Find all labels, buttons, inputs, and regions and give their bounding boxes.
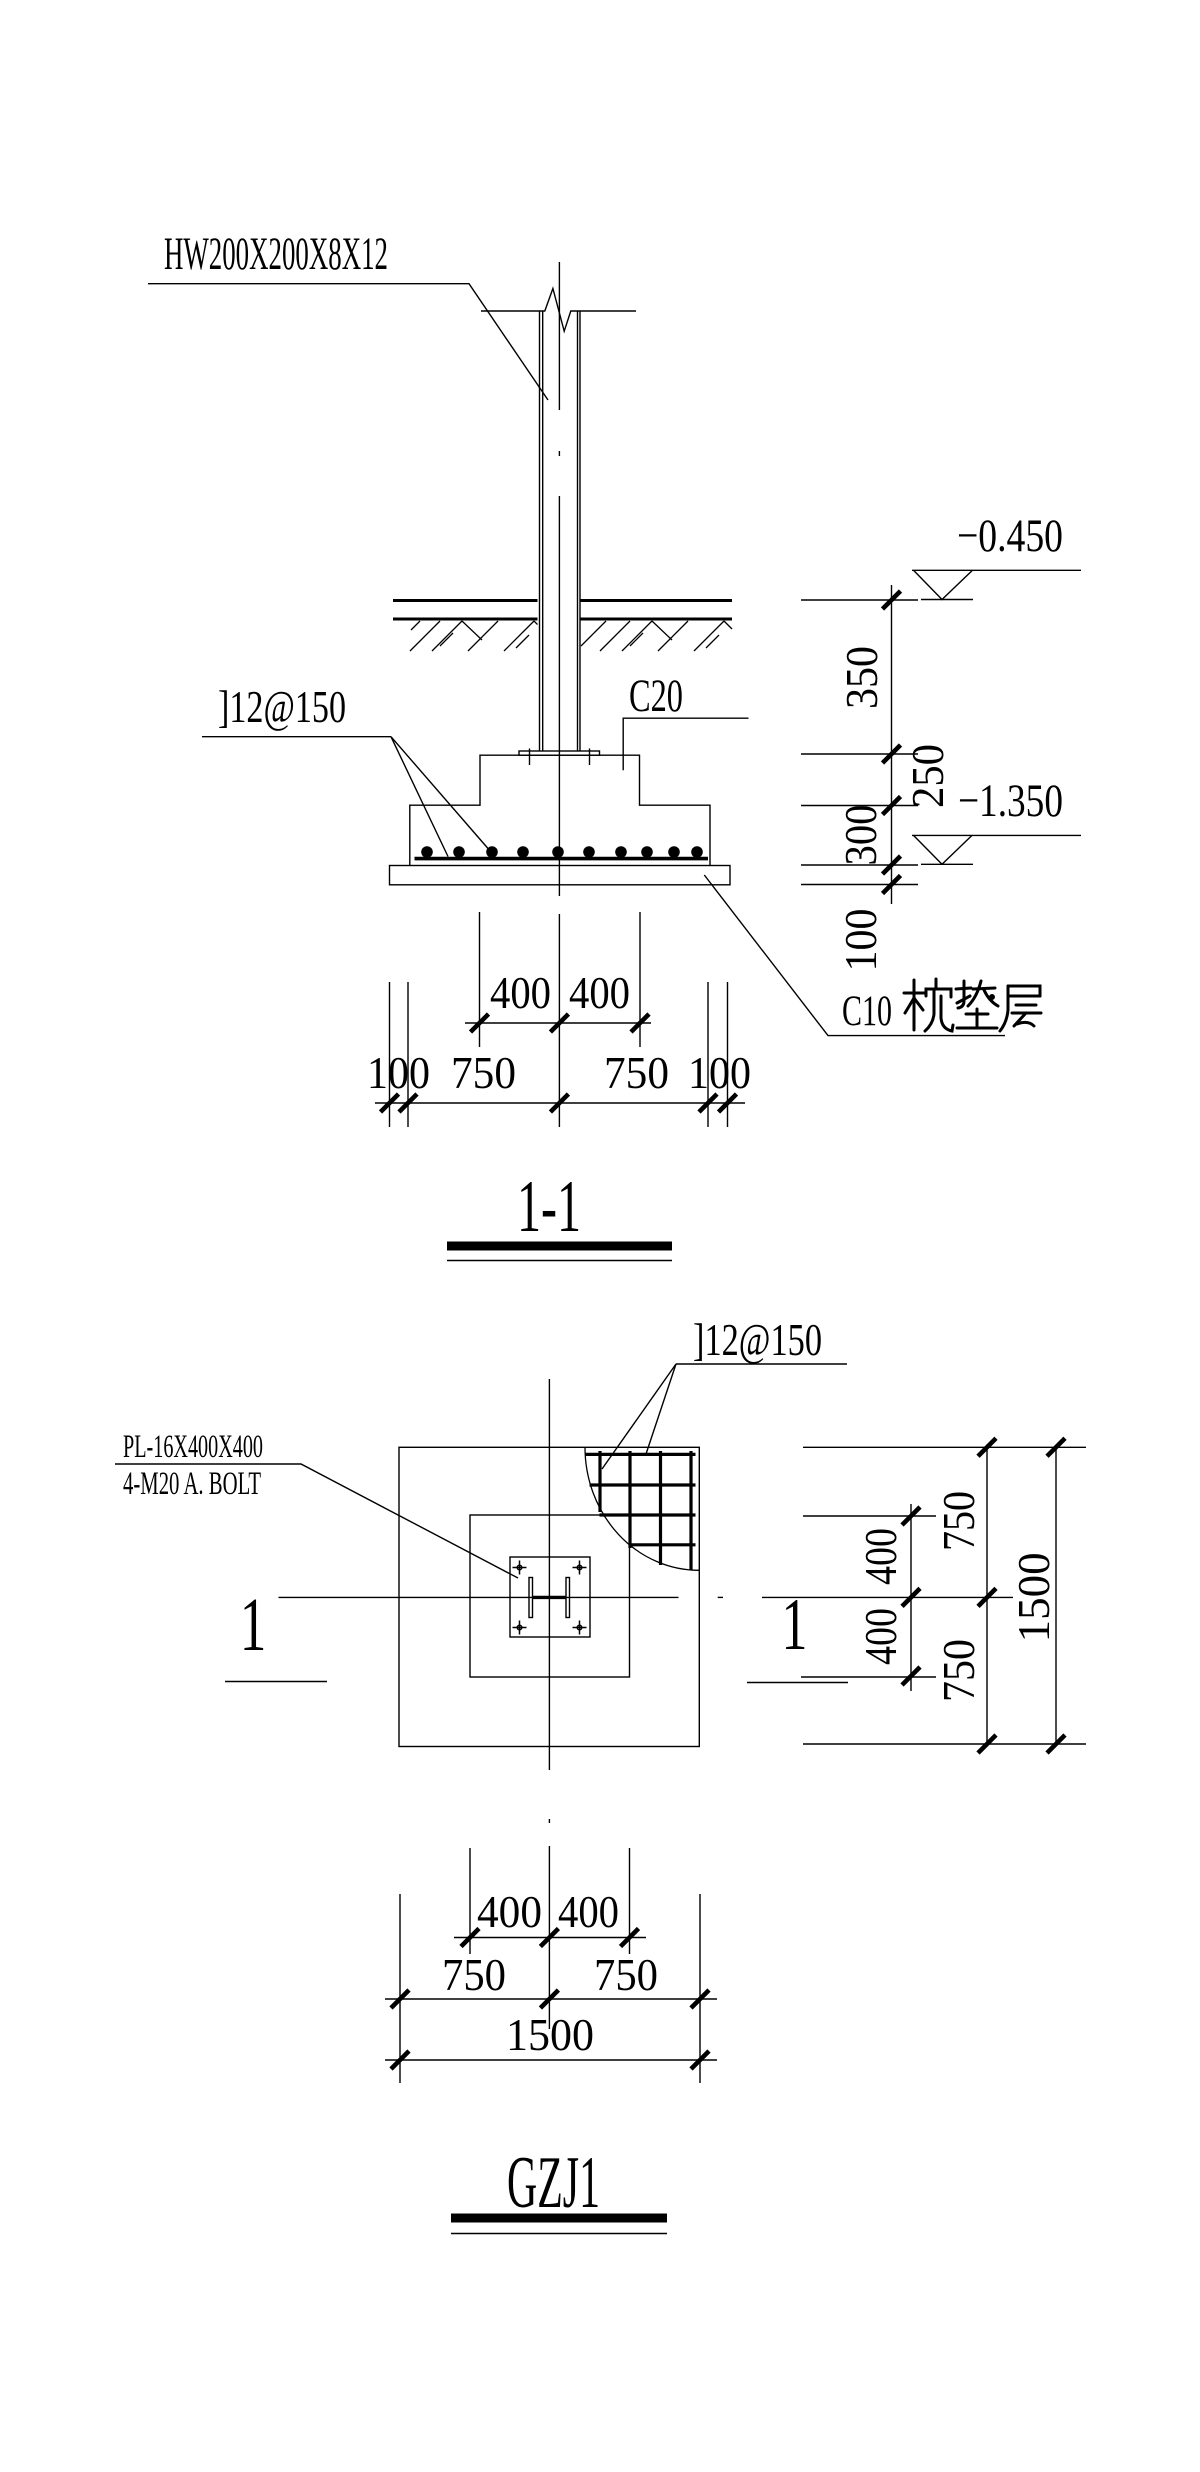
plan dim line 750/750	[385, 1998, 717, 2000]
svg-text:1500: 1500	[506, 2009, 594, 2060]
svg-text:GZJ1: GZJ1	[507, 2142, 600, 2224]
base plate (plan)	[510, 1557, 590, 1637]
svg-text:350: 350	[836, 646, 887, 709]
dim text 400 lower (plan right)	[855, 1608, 906, 1665]
column top break line	[481, 289, 636, 332]
right dim ticks	[883, 591, 901, 609]
anchor bolts (section)	[529, 749, 531, 766]
bottom rebar line	[415, 857, 709, 861]
steel column HW section	[540, 311, 581, 751]
svg-text:4-M20 A. BOLT: 4-M20 A. BOLT	[123, 1466, 261, 1502]
dim text 100 left	[367, 1047, 430, 1098]
label ]12@150 (plan)	[693, 1314, 822, 1365]
dim text 750 left (plan bottom)	[442, 1949, 506, 2000]
svg-text:1: 1	[782, 1583, 808, 1665]
base plate (section)	[519, 751, 600, 755]
svg-text:250: 250	[902, 744, 953, 808]
plan dim line 400/400	[454, 1937, 646, 1939]
anchor bolt top-right	[573, 1561, 587, 1575]
dim text 300	[835, 805, 886, 866]
mesh break arc	[585, 1447, 699, 1570]
title GZJ1	[451, 2142, 667, 2234]
right dim extension lines	[801, 599, 918, 601]
svg-text:1: 1	[240, 1584, 267, 1667]
section mark 1 right	[747, 1583, 848, 1683]
hanzi ceng (cushion char 3)	[1000, 986, 1041, 1031]
svg-text:750: 750	[933, 1491, 984, 1551]
anchor bolt top-left	[513, 1561, 527, 1575]
label ]12@150 (section)	[218, 681, 346, 732]
leader ]12@150 (section)	[202, 736, 391, 738]
plan right extension lines	[803, 1446, 1086, 1448]
dim line 400/400 (section)	[465, 1022, 651, 1024]
C10 cushion slab	[390, 866, 731, 885]
leader for HW label	[148, 284, 548, 400]
elevation marker -0.450	[912, 510, 1081, 600]
rebar mesh vertical bars	[600, 1451, 691, 1570]
dim text 400 left	[490, 967, 551, 1018]
plan vertical center line	[548, 1379, 550, 2029]
dim text 1500 (plan bottom)	[506, 2009, 594, 2060]
dim text 750 left	[451, 1047, 516, 1098]
leader C10	[704, 875, 1005, 1036]
outer footing square	[399, 1447, 699, 1746]
svg-text:−1.350: −1.350	[958, 775, 1063, 827]
dim text 400 left (plan bottom)	[477, 1886, 542, 1937]
middle pedestal square	[470, 1515, 630, 1677]
hanzi dian (cushion char 2)	[956, 981, 998, 1028]
svg-text:400: 400	[569, 967, 630, 1018]
dim text 1500 (plan right)	[1008, 1552, 1059, 1642]
dim text 750 lower (plan right)	[933, 1639, 984, 1702]
svg-text:]12@150: ]12@150	[218, 681, 346, 732]
svg-text:100: 100	[835, 909, 886, 972]
anchor bolt bottom-left	[513, 1621, 527, 1635]
leader PL label	[115, 1464, 518, 1578]
rebar mesh horizontal bars	[585, 1454, 695, 1544]
svg-text:100: 100	[688, 1047, 751, 1098]
svg-text:400: 400	[855, 1608, 906, 1665]
svg-text:750: 750	[594, 1949, 658, 2000]
right elevation dim line	[891, 585, 893, 904]
title 1-1	[447, 1166, 672, 1261]
dim text 400 right	[569, 967, 630, 1018]
dim line 100/750/750/100	[375, 1102, 745, 1104]
foundation stepped outline	[410, 755, 710, 865]
label HW200X200X8X12	[164, 228, 388, 280]
plan bottom extension lines	[469, 1848, 471, 1954]
svg-text:C10: C10	[842, 988, 892, 1035]
H column section symbol	[529, 1578, 570, 1618]
elevation marker -1.350	[912, 775, 1081, 864]
svg-text:300: 300	[835, 805, 886, 866]
dim text 750 right	[604, 1047, 669, 1098]
svg-text:750: 750	[604, 1047, 669, 1098]
leader C20	[623, 718, 748, 770]
svg-text:400: 400	[855, 1528, 906, 1585]
column center line	[558, 262, 560, 1127]
svg-text:−0.450: −0.450	[957, 510, 1063, 562]
dim text 100 right	[688, 1047, 751, 1098]
plan right dim line 1500	[1055, 1447, 1057, 1744]
label 4-M20 A. BOLT	[123, 1466, 261, 1502]
dim text 750 right (plan bottom)	[594, 1949, 658, 2000]
svg-text:HW200X200X8X12: HW200X200X8X12	[164, 228, 388, 280]
svg-text:400: 400	[490, 967, 551, 1018]
svg-text:750: 750	[933, 1639, 984, 1702]
svg-text:750: 750	[451, 1047, 516, 1098]
dim text 350	[836, 646, 887, 709]
label C20	[629, 670, 683, 722]
dim text 100	[835, 909, 886, 972]
dim text 400 right (plan bottom)	[558, 1886, 619, 1937]
svg-text:400: 400	[558, 1886, 619, 1937]
svg-text:750: 750	[442, 1949, 506, 2000]
svg-text:C20: C20	[629, 670, 683, 722]
svg-text:400: 400	[477, 1886, 542, 1937]
ground level lines	[393, 601, 732, 620]
plan right dim line 400/400	[910, 1504, 912, 1691]
soil hatch left	[410, 621, 538, 651]
label C10 cushion	[842, 988, 892, 1035]
section mark 1 left	[225, 1584, 327, 1682]
rebar dots	[421, 846, 703, 858]
anchor bolt bottom-right	[573, 1621, 587, 1635]
svg-text:PL-16X400X400: PL-16X400X400	[123, 1429, 263, 1465]
dim text 250	[902, 744, 953, 808]
bottom extension lines (section)	[479, 912, 481, 1047]
plan horizontal center line	[279, 1596, 1014, 1598]
plan dim line 1500	[385, 2059, 717, 2061]
plan right dim line 750/750	[986, 1447, 988, 1744]
svg-text:100: 100	[367, 1047, 430, 1098]
svg-text:1-1: 1-1	[517, 1166, 581, 1248]
svg-text:]12@150: ]12@150	[693, 1314, 822, 1365]
svg-text:1500: 1500	[1008, 1552, 1059, 1642]
dim text 400 upper (plan right)	[855, 1528, 906, 1585]
soil hatch right	[581, 621, 732, 651]
hanzi zhen (cushion char 1)	[904, 979, 953, 1031]
leader ]12@150 (plan)	[676, 1363, 847, 1365]
label PL-16X400X400	[123, 1429, 263, 1465]
dim text 750 upper (plan right)	[933, 1491, 984, 1551]
